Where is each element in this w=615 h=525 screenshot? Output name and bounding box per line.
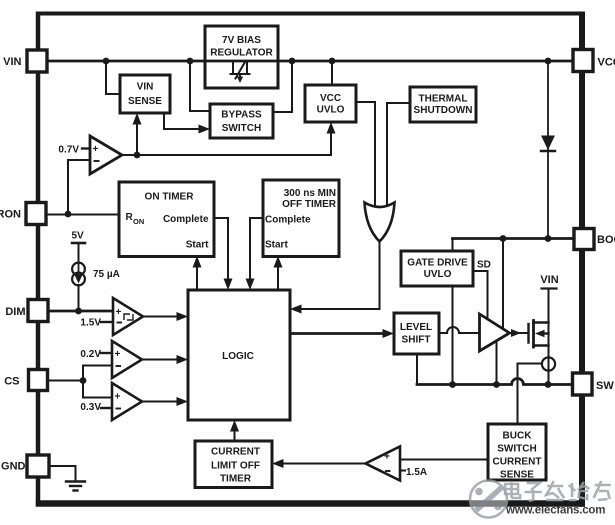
wire LOGIC to ON TIMER start xyxy=(196,266,198,290)
wire rail to VIN SENSE input xyxy=(106,61,120,94)
char dian xyxy=(505,481,520,498)
svg-text:VIN: VIN xyxy=(540,274,558,286)
body arrow of PMOS xyxy=(535,330,545,337)
svg-text:www.elecfans.com: www.elecfans.com xyxy=(505,505,605,517)
svg-text:+: + xyxy=(116,307,122,318)
svg-text:SENSE: SENSE xyxy=(128,96,162,107)
wire driver return to SW rail xyxy=(496,343,498,385)
node on VIN rail to BYPASS SWITCH xyxy=(187,58,194,65)
svg-text:0.2V: 0.2V xyxy=(80,349,101,360)
svg-text:ON: ON xyxy=(133,217,144,226)
transistor Q1 buck PMOS xyxy=(529,321,549,348)
svg-text:SWITCH: SWITCH xyxy=(222,123,261,134)
svg-text:THERMAL: THERMAL xyxy=(419,94,468,105)
arrow into BYPASS SWITCH left xyxy=(199,125,211,134)
wire branch up into VIN SENSE bottom xyxy=(136,124,138,155)
wire CURRENT LIMIT OFF TIMER to LOGIC bottom xyxy=(234,430,236,441)
svg-text:SD: SD xyxy=(477,260,491,271)
svg-text:GND: GND xyxy=(1,461,26,473)
block LEVEL SHIFT xyxy=(394,313,439,354)
block THERMAL SHUTDOWN xyxy=(410,87,476,122)
hysteresis glyph in 1.5V comparator xyxy=(124,314,133,320)
pin BOOT xyxy=(574,229,594,250)
pin DIM xyxy=(28,300,48,322)
wire RON pin to ON TIMER xyxy=(46,214,119,216)
svg-text:0.7V: 0.7V xyxy=(58,144,79,155)
wire comparator output to VCC UVLO bottom xyxy=(122,128,331,155)
VIN stub bar above MOSFET xyxy=(542,287,557,289)
wire ON TIMER complete to LOGIC xyxy=(214,218,228,280)
char zi xyxy=(525,483,542,501)
svg-text:LOGIC: LOGIC xyxy=(222,351,254,362)
wire sense tap to BUCK SWITCH CURRENT SENSE with hop under rail xyxy=(518,364,543,425)
wire BYPASS SWITCH output up to rail xyxy=(273,61,292,112)
op-amp comparator 1.5A (points left) xyxy=(366,447,401,481)
svg-text:Complete: Complete xyxy=(265,215,311,226)
svg-text:SHUTDOWN: SHUTDOWN xyxy=(414,105,473,116)
op-amp comparator 1.5V xyxy=(113,298,143,335)
5V supply bar xyxy=(72,242,85,245)
wire rail down to BYPASS SWITCH left xyxy=(190,61,210,111)
svg-text:BOOT: BOOT xyxy=(597,234,615,246)
block BUCK SWITCH CURRENT SENSE xyxy=(488,424,546,480)
svg-text:7V BIAS: 7V BIAS xyxy=(222,35,261,46)
wire diode branch vertical xyxy=(547,61,549,239)
wire BOOT node down to driver top xyxy=(502,239,504,331)
wire CS node to 0.2V comparator minus xyxy=(83,366,112,381)
wire current source to DIM wire xyxy=(78,285,80,311)
svg-text:+: + xyxy=(93,144,99,155)
arrow down into LOGIC top xyxy=(224,279,233,291)
watermark logo xyxy=(470,481,507,518)
arrow into LOGIC left from 0.2V comp xyxy=(177,355,189,364)
wire CS node to 0.3V comparator plus xyxy=(83,381,112,398)
svg-text:CURRENT: CURRENT xyxy=(211,447,260,458)
wire OFF TIMER complete to LOGIC xyxy=(250,218,263,280)
wire LEVEL SHIFT bottom to SW rail xyxy=(416,354,418,385)
arrow into CURRENT LIMIT OFF TIMER right xyxy=(272,459,284,468)
wire 1.5V comparator output to LOGIC xyxy=(143,316,178,318)
svg-text:75 µA: 75 µA xyxy=(93,269,120,280)
svg-text:VIN: VIN xyxy=(3,56,21,68)
wire GND pin to ground xyxy=(49,466,76,480)
node on VIN rail to VIN SENSE xyxy=(103,58,110,65)
block VCC UVLO xyxy=(305,85,356,122)
pin GND xyxy=(27,455,49,477)
comparator input signs xyxy=(93,144,391,463)
svg-text:TIMER: TIMER xyxy=(220,474,252,485)
op-amp comparator 0.7V xyxy=(90,136,122,174)
op-amp comparator 0.3V xyxy=(112,383,142,420)
watermark url xyxy=(505,505,605,517)
arrow into LEVEL SHIFT left xyxy=(383,329,395,338)
arrow on gate wire xyxy=(511,329,521,337)
svg-text:LIMIT OFF: LIMIT OFF xyxy=(211,461,260,472)
current source 75uA symbol xyxy=(72,263,85,286)
block BYPASS SWITCH xyxy=(210,104,273,138)
svg-text:VCC: VCC xyxy=(598,57,615,69)
wire BUCK SENSE output to 1.5A comparator xyxy=(400,459,488,461)
wire LOGIC output to LEVEL SHIFT xyxy=(290,332,384,335)
svg-text:300 ns MIN: 300 ns MIN xyxy=(284,188,336,199)
char fa xyxy=(546,481,564,500)
pin VCC xyxy=(573,50,593,72)
block VIN SENSE xyxy=(120,75,170,113)
svg-text:ON TIMER: ON TIMER xyxy=(145,192,195,203)
arrow into LOGIC left from 0.3V comp xyxy=(177,397,189,406)
svg-text:UVLO: UVLO xyxy=(424,269,452,280)
wire VIN stub down through MOSFET to current source xyxy=(548,289,550,359)
pin RON xyxy=(26,203,46,225)
wire LEVEL SHIFT to gate driver with hop xyxy=(439,327,479,333)
wire 0.7V reference stub to plus input xyxy=(82,147,92,149)
IC outline border bottom xyxy=(36,500,585,507)
OR gate U2 xyxy=(365,203,395,242)
block CURRENT LIMIT OFF TIMER xyxy=(195,441,272,488)
arrow into VCC UVLO bottom xyxy=(327,122,336,134)
svg-text:Complete: Complete xyxy=(163,214,209,225)
node BOOT to driver supply xyxy=(500,235,507,242)
current source bubble at MOSFET source xyxy=(542,357,555,370)
svg-text:1.5A: 1.5A xyxy=(406,467,427,478)
wire 5V to current source xyxy=(78,243,80,263)
block 300ns MIN OFF TIMER xyxy=(263,180,339,257)
wire RON node up to comparator minus input xyxy=(68,160,90,214)
char shao xyxy=(569,482,590,500)
wire 0.3V comparator output to LOGIC xyxy=(142,401,178,403)
block GATE DRIVE UVLO xyxy=(401,251,473,286)
svg-text:GATE DRIVE: GATE DRIVE xyxy=(407,258,468,269)
arrow down into LOGIC top xyxy=(246,279,255,291)
svg-text:SHIFT: SHIFT xyxy=(402,335,431,346)
svg-text:CURRENT: CURRENT xyxy=(493,457,542,468)
arrow into VIN SENSE bottom xyxy=(133,113,142,125)
wire THERMAL SHUTDOWN output to OR gate xyxy=(387,103,410,209)
svg-text:Start: Start xyxy=(265,240,288,251)
gate driver buffer xyxy=(480,314,510,351)
op-amp comparator 0.2V xyxy=(112,341,142,378)
wire VIN SENSE output to BYPASS SWITCH xyxy=(164,113,200,129)
watermark text: stroke-drawn CJK "dian zi fa shao you" xyxy=(505,481,611,501)
pin SW xyxy=(573,373,593,395)
svg-text:Start: Start xyxy=(186,240,209,251)
IC outline border top xyxy=(36,12,585,16)
block ON TIMER xyxy=(119,182,214,257)
wire 1.5A reference stub xyxy=(400,470,405,472)
ground symbol xyxy=(66,482,85,491)
wire 0.3V reference stub xyxy=(101,407,112,409)
wire SW rail with hop xyxy=(417,379,573,385)
svg-text:REGULATOR: REGULATOR xyxy=(210,48,273,59)
node SW rail gate uvlo xyxy=(449,381,456,388)
svg-text:5V: 5V xyxy=(72,231,85,242)
node on VIN rail from BYPASS SWITCH output xyxy=(289,58,296,65)
block LOGIC xyxy=(188,290,290,420)
svg-text:VCC: VCC xyxy=(320,93,341,104)
arrow into LOGIC right (from OR) xyxy=(290,305,302,314)
svg-text:SW: SW xyxy=(596,380,614,392)
svg-text:DIM: DIM xyxy=(5,306,25,318)
wire 1.5A comparator output to CURRENT LIMIT OFF TIMER xyxy=(283,463,366,465)
wire driver output to MOSFET gate xyxy=(510,332,529,334)
node on VIN rail to VCC UVLO xyxy=(329,58,336,65)
wire BOOT corner down to GATE DRIVE UVLO top xyxy=(452,239,454,252)
node comparator output branch xyxy=(134,152,141,159)
wire GATE DRIVE UVLO bottom to SW rail xyxy=(452,286,454,385)
svg-text:UVLO: UVLO xyxy=(317,105,345,116)
svg-text:VIN: VIN xyxy=(137,82,154,93)
IC outline border right xyxy=(579,12,585,507)
svg-text:+: + xyxy=(115,392,121,403)
node on VIN rail to diode branch xyxy=(545,58,552,65)
wire SD from GATE DRIVE UVLO to driver xyxy=(473,271,488,318)
arrow up into LOGIC bottom xyxy=(230,420,239,432)
wire LOGIC to OFF TIMER start xyxy=(277,266,279,290)
wire CS pin to node xyxy=(47,380,83,382)
wire 0.2V comparator output to LOGIC xyxy=(142,359,178,361)
svg-text:BYPASS: BYPASS xyxy=(221,110,262,121)
node SW rail current source xyxy=(545,381,552,388)
block 7V BIAS REGULATOR xyxy=(205,26,278,88)
svg-text:OFF TIMER: OFF TIMER xyxy=(282,199,337,210)
wire VIN rail xyxy=(47,60,573,63)
wire rail down to VCC UVLO top xyxy=(331,61,333,85)
wire 1.5V reference stub xyxy=(101,321,113,323)
node BOOT to diode xyxy=(545,235,552,242)
svg-text:SENSE: SENSE xyxy=(500,470,534,481)
IC outline border left xyxy=(36,12,41,507)
pin CS xyxy=(29,370,48,391)
svg-text:0.3V: 0.3V xyxy=(80,402,101,413)
wire 0.2V reference stub xyxy=(101,352,112,354)
diode D1 xyxy=(541,136,555,152)
svg-text:RON: RON xyxy=(0,209,21,221)
arrow up into ON TIMER bottom xyxy=(193,256,202,268)
wire OR gate output to LOGIC xyxy=(300,240,380,309)
char you xyxy=(594,481,611,500)
node SW rail driver return xyxy=(493,381,500,388)
wire BOOT pin rail xyxy=(453,237,575,240)
arrow into LOGIC left from 1.5V comp xyxy=(177,312,189,321)
arrow up into OFF TIMER bottom xyxy=(274,256,283,268)
node RON branch xyxy=(65,211,72,218)
wire DIM pin to comparator xyxy=(48,310,113,313)
node CS branch xyxy=(80,377,87,384)
node DIM wire xyxy=(75,308,82,315)
svg-text:+: + xyxy=(115,349,121,360)
svg-text:LEVEL: LEVEL xyxy=(400,322,432,333)
regulator pass device symbol inside 7V BIAS REGULATOR xyxy=(207,60,277,63)
svg-text:CS: CS xyxy=(4,376,19,388)
wire VCC UVLO output to OR gate xyxy=(356,102,375,209)
svg-text:1.5V: 1.5V xyxy=(80,318,101,329)
svg-text:SWITCH: SWITCH xyxy=(497,444,536,455)
svg-text:+: + xyxy=(384,452,390,463)
svg-text:BUCK: BUCK xyxy=(503,431,533,442)
wire bubble to SW rail xyxy=(548,371,550,385)
pin VIN xyxy=(27,50,47,72)
